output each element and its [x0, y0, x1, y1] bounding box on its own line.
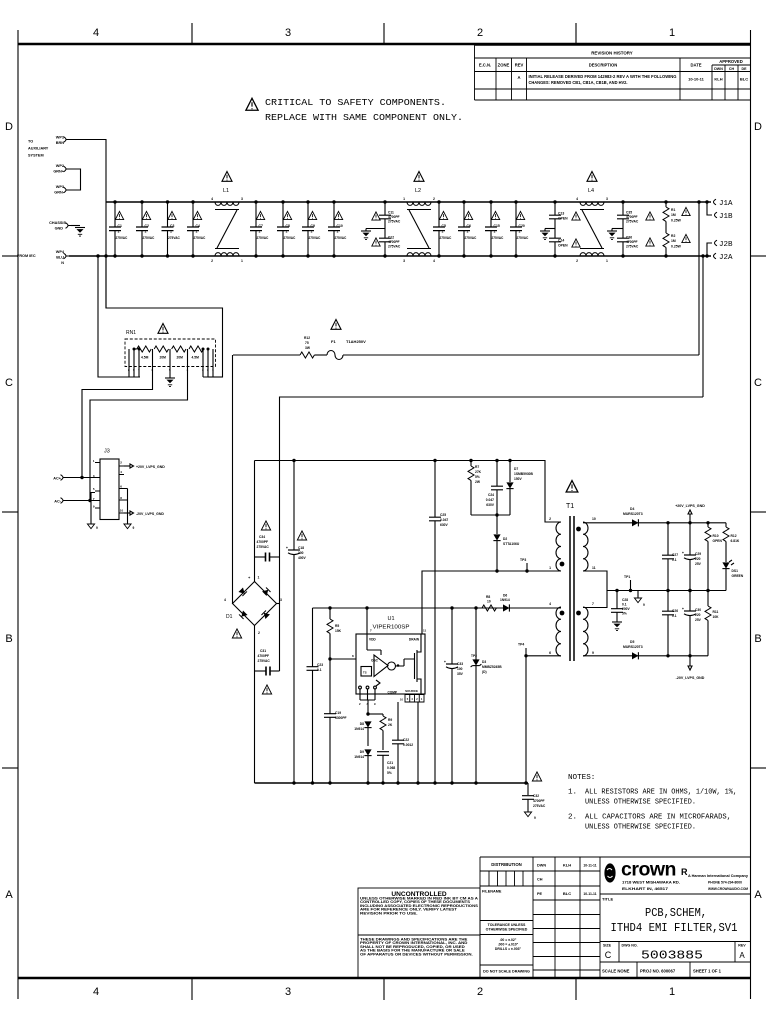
svg-text:2: 2	[258, 631, 260, 635]
svg-text:1: 1	[196, 230, 198, 234]
capacitor C25 0.047 630V	[429, 459, 449, 783]
capacitors C13/C14 with ground	[540, 200, 580, 257]
capacitors C11/C12 with ground	[361, 200, 401, 257]
svg-text:TS: TS	[363, 671, 367, 675]
IC U1 VIPER100SP	[356, 606, 427, 706]
svg-text:CHANGES: REMOVED CB1, CB1A, CB: CHANGES: REMOVED CB1, CB1A, CB1B, AND HV…	[529, 80, 628, 85]
svg-text:C3: C3	[170, 224, 174, 228]
svg-text:275VAC: 275VAC	[492, 236, 505, 240]
svg-text:1: 1	[145, 230, 147, 234]
svg-text:NOTES:: NOTES:	[568, 774, 595, 782]
svg-text:D6: D6	[503, 594, 507, 598]
svg-text:R10: R10	[713, 534, 719, 538]
svg-text:9: 9	[592, 651, 594, 655]
svg-text:4700PF: 4700PF	[388, 240, 400, 244]
svg-text:11: 11	[423, 629, 427, 633]
svg-text:C22: C22	[403, 738, 409, 742]
svg-text:100: 100	[457, 667, 463, 671]
svg-text:4700PF: 4700PF	[626, 240, 638, 244]
capacitor C1 275VAC	[109, 200, 129, 257]
wire WP1 to top bus and down to RN1	[69, 140, 106, 309]
svg-text:4700PF: 4700PF	[626, 215, 638, 219]
svg-text:TP4: TP4	[518, 643, 524, 647]
svg-text:MURS120T3: MURS120T3	[623, 645, 643, 649]
svg-text:220: 220	[695, 613, 701, 617]
svg-text:C9: C9	[311, 224, 315, 228]
svg-text:400V: 400V	[298, 556, 307, 560]
svg-text:275VAC: 275VAC	[388, 220, 401, 224]
capacitor C26 0.1	[662, 591, 679, 658]
net -20V_LVPS_GND	[676, 656, 705, 680]
svg-text:2: 2	[549, 517, 551, 521]
svg-text:3: 3	[285, 27, 291, 39]
svg-text:AUXILIARY: AUXILIARY	[28, 147, 49, 151]
svg-text:C19: C19	[335, 711, 341, 715]
capacitor C33 100 35V	[444, 606, 464, 783]
svg-text:275VAC: 275VAC	[168, 236, 181, 240]
svg-text:1: 1	[311, 230, 313, 234]
capacitor C7 275VAC	[250, 200, 270, 257]
capacitor C19 3300PF	[324, 657, 347, 783]
svg-text:SIZE: SIZE	[603, 944, 612, 948]
svg-text:INITIAL RELEASE DERIVED FROM 1: INITIAL RELEASE DERIVED FROM 142983-2 RE…	[529, 74, 677, 79]
svg-text:1: 1	[403, 197, 405, 201]
resistor R12 75 3W	[233, 336, 314, 358]
svg-text:2K: 2K	[388, 723, 393, 727]
svg-text:C12: C12	[388, 236, 394, 240]
svg-text:25V: 25V	[695, 618, 702, 622]
svg-text:1: 1	[494, 230, 496, 234]
svg-text:4: 4	[224, 598, 226, 602]
connector J3	[93, 449, 128, 520]
svg-text:SCALE NONE: SCALE NONE	[602, 969, 630, 974]
capacitor C31 4700PF 275VAC	[255, 649, 280, 694]
wire bottom bus (neutral)	[69, 255, 711, 257]
svg-text:1: 1	[258, 576, 260, 580]
resistor R9 2K	[366, 712, 393, 750]
svg-text:T1AH250V: T1AH250V	[346, 339, 366, 344]
svg-text:1718 WEST MISHAWAKA RD.: 1718 WEST MISHAWAKA RD.	[622, 881, 680, 885]
wire primary ground rail	[255, 782, 529, 784]
svg-text:DWN: DWN	[714, 67, 723, 71]
capacitor C8 275VAC	[277, 200, 297, 257]
svg-text:STTA106U: STTA106U	[503, 542, 520, 546]
wire fuse line down to bridge AC1	[232, 355, 234, 604]
svg-text:R12: R12	[731, 534, 737, 538]
svg-text:C5: C5	[442, 224, 446, 228]
resistor R11 10K	[705, 591, 719, 656]
capacitor C4 275VAC	[187, 200, 207, 257]
capacitor C28 0.1 200V 5%	[611, 589, 631, 631]
wire aux VDD rail	[313, 607, 562, 609]
terminal WP2 GRN+	[53, 164, 69, 174]
svg-text:TP1: TP1	[624, 575, 630, 579]
svg-text:D8: D8	[360, 722, 364, 726]
svg-text:275VAC: 275VAC	[194, 236, 207, 240]
svg-text:275VAC: 275VAC	[258, 659, 271, 663]
svg-text:B: B	[754, 633, 761, 645]
svg-text:R: R	[681, 867, 688, 877]
transformer T1	[549, 481, 596, 661]
svg-text:DATE: DATE	[690, 63, 701, 68]
terminal WP3 GRN-	[54, 185, 69, 195]
svg-text:1N914: 1N914	[500, 598, 510, 602]
svg-text:9: 9	[534, 816, 536, 820]
svg-text:COMP: COMP	[387, 691, 397, 695]
svg-text:+: +	[682, 607, 684, 611]
wire RN1 pin4 to AC-	[90, 367, 188, 501]
wire drain rail to T1 pin 1	[422, 571, 561, 634]
svg-text:275VAC: 275VAC	[335, 236, 348, 240]
svg-text:C33: C33	[457, 662, 463, 666]
svg-text:R2: R2	[671, 234, 675, 238]
svg-text:crown: crown	[621, 859, 676, 881]
svg-text:C10: C10	[337, 224, 343, 228]
diode D7 clamp	[506, 459, 533, 515]
svg-text:D5: D5	[630, 640, 634, 644]
capacitor C30 220 25V	[682, 589, 702, 658]
svg-text:UNLESS OTHERWISE SPECIFIED.: UNLESS OTHERWISE SPECIFIED.	[585, 824, 696, 832]
capacitor C32 4700PF 275VAC	[522, 772, 546, 820]
svg-text:10-11-11: 10-11-11	[583, 864, 596, 868]
svg-text:75: 75	[305, 341, 309, 345]
svg-text:C32: C32	[533, 794, 539, 798]
wire T1 pin 6 to ground rail / TP4	[526, 656, 561, 783]
svg-text:B: B	[5, 633, 12, 645]
capacitor C15 275VAC	[485, 200, 505, 257]
svg-text:REV: REV	[738, 944, 746, 948]
svg-text:D7: D7	[514, 467, 518, 471]
resistor R12b 6.81K	[723, 523, 740, 562]
svg-text:D: D	[754, 121, 762, 133]
svg-text:35V: 35V	[457, 672, 464, 676]
svg-text:OTHERWISE SPECIFIED: OTHERWISE SPECIFIED	[486, 928, 528, 932]
svg-text:DRILLS = ±.003": DRILLS = ±.003"	[495, 947, 522, 951]
svg-text:20M: 20M	[160, 356, 167, 360]
wire bridge DC- down	[254, 626, 256, 784]
svg-text:RN1: RN1	[126, 330, 136, 336]
svg-text:1M: 1M	[671, 213, 676, 217]
test point TP1	[624, 575, 632, 592]
svg-text:D1: D1	[226, 614, 233, 620]
svg-text:PROJ NO. 600067: PROJ NO. 600067	[640, 969, 676, 974]
svg-text:APPROVED: APPROVED	[719, 59, 743, 64]
svg-text:C2: C2	[145, 224, 149, 228]
svg-text:R7: R7	[475, 465, 479, 469]
svg-text:GREEN: GREEN	[732, 574, 744, 578]
svg-text:9: 9	[133, 526, 135, 530]
svg-text:C15: C15	[494, 224, 500, 228]
svg-text:0.068: 0.068	[387, 766, 395, 770]
svg-text:R8: R8	[486, 595, 490, 599]
svg-text:PCB,SCHEM,: PCB,SCHEM,	[645, 907, 707, 920]
svg-text:10: 10	[592, 517, 596, 521]
svg-text:U1: U1	[387, 616, 394, 622]
svg-text:4700PF: 4700PF	[258, 654, 270, 658]
svg-text:R12: R12	[304, 336, 310, 340]
svg-text:0.1: 0.1	[317, 668, 322, 672]
wire +20V rail	[583, 522, 726, 524]
svg-text:TOLERANCE UNLESS: TOLERANCE UNLESS	[488, 923, 526, 927]
svg-text:1SMB5930B: 1SMB5930B	[514, 472, 533, 476]
svg-text:KLH: KLH	[714, 77, 722, 82]
svg-text:275VAC: 275VAC	[465, 236, 478, 240]
svg-text:C34: C34	[259, 535, 265, 539]
svg-text:10K: 10K	[713, 615, 720, 619]
svg-text:D3: D3	[482, 660, 486, 664]
svg-text:7: 7	[592, 602, 594, 606]
svg-text:PE: PE	[537, 892, 543, 896]
svg-text:4700PF: 4700PF	[388, 215, 400, 219]
svg-text:REVISION HISTORY: REVISION HISTORY	[591, 51, 633, 56]
svg-text:SOURCE: SOURCE	[405, 689, 418, 693]
svg-text:25V: 25V	[695, 562, 702, 566]
svg-text:DWN: DWN	[537, 864, 546, 868]
svg-text:C21: C21	[387, 761, 393, 765]
svg-text:TO: TO	[28, 140, 33, 144]
svg-text:10: 10	[120, 509, 124, 513]
svg-text:C: C	[605, 950, 612, 960]
svg-text:UNLESS OTHERWISE SPECIFIED.: UNLESS OTHERWISE SPECIFIED.	[585, 799, 696, 807]
svg-text:WP2: WP2	[56, 164, 64, 168]
svg-text:DWG NO.: DWG NO.	[622, 944, 638, 948]
svg-text:BRN: BRN	[56, 141, 64, 145]
svg-text:10: 10	[487, 600, 491, 604]
terminal CHASSIS GND	[49, 221, 85, 236]
svg-text:2: 2	[477, 986, 483, 998]
resistor R7 27K	[468, 459, 482, 515]
svg-text:BLC: BLC	[740, 77, 748, 82]
diode D8 1N914	[354, 721, 371, 746]
wire top bus drop to fuse line	[698, 202, 700, 355]
svg-text:WP3: WP3	[56, 185, 64, 189]
svg-text:1: 1	[669, 27, 675, 39]
svg-text:MURS120T3: MURS120T3	[623, 512, 643, 516]
svg-text:REPLACE WITH SAME COMPONENT ON: REPLACE WITH SAME COMPONENT ONLY.	[265, 112, 463, 123]
svg-text:4: 4	[549, 602, 551, 606]
svg-text:SYSTEM: SYSTEM	[28, 154, 44, 158]
svg-text:C13: C13	[558, 212, 564, 216]
svg-text:MMBZ5245B: MMBZ5245B	[482, 665, 502, 669]
svg-text:3300PF: 3300PF	[335, 716, 347, 720]
wire DC+ rail down through C34 to bridge	[254, 461, 256, 582]
svg-text:1: 1	[286, 230, 288, 234]
svg-text:C11: C11	[388, 211, 394, 215]
svg-text:-20V_LVPS_GND: -20V_LVPS_GND	[136, 512, 164, 516]
svg-text:OF APPARATUS OR DEVICES WITHOU: OF APPARATUS OR DEVICES WITHOUT PERMISSI…	[360, 952, 473, 956]
svg-text:5%: 5%	[622, 612, 627, 616]
title block	[358, 857, 751, 978]
terminal WP4 BLU N	[56, 250, 69, 265]
svg-text:BLC: BLC	[563, 891, 571, 896]
svg-text:GRN-: GRN-	[54, 191, 64, 195]
terminal AC-	[54, 498, 100, 504]
wire U1 source to ground rail	[417, 702, 419, 783]
svg-text:D9: D9	[360, 750, 364, 754]
svg-text:275VAC: 275VAC	[626, 220, 639, 224]
svg-text:J3: J3	[104, 449, 110, 455]
svg-text:3: 3	[285, 986, 291, 998]
capacitor C21 0.068 5%	[377, 752, 396, 783]
svg-text:WP1: WP1	[56, 136, 64, 140]
notes	[568, 774, 737, 832]
svg-text:R5: R5	[335, 624, 339, 628]
svg-text:GRN+: GRN+	[53, 170, 64, 174]
svg-text:275VAC: 275VAC	[517, 236, 530, 240]
test point TP3	[520, 558, 529, 573]
svg-text:1M: 1M	[671, 239, 676, 243]
connector J2B	[705, 240, 733, 258]
svg-text:C4: C4	[196, 224, 200, 228]
capacitor C10 275VAC	[328, 200, 348, 257]
svg-text:OPEN: OPEN	[558, 217, 568, 221]
svg-text:1: 1	[549, 566, 551, 570]
svg-text:L1: L1	[223, 188, 229, 194]
svg-text:J1A: J1A	[719, 200, 733, 208]
svg-text:15K: 15K	[335, 629, 342, 633]
svg-text:3: 3	[606, 197, 608, 201]
inductor L4 common-mode choke	[576, 171, 608, 263]
svg-text:630V: 630V	[486, 503, 495, 507]
inductor L1 common-mode choke	[211, 171, 243, 263]
svg-text:275VAC: 275VAC	[533, 804, 546, 808]
svg-text:J2A: J2A	[719, 254, 733, 262]
svg-text:4.5M: 4.5M	[141, 356, 149, 360]
svg-text:J1B: J1B	[719, 213, 733, 221]
svg-text:(D): (D)	[482, 670, 487, 674]
svg-text:A Harman International Company: A Harman International Company	[688, 874, 748, 878]
svg-text:C1: C1	[118, 224, 122, 228]
svg-text:0.1: 0.1	[672, 614, 677, 618]
wire neutral tap to RN1 right side	[106, 256, 223, 377]
svg-text:A: A	[739, 951, 745, 960]
fuse F1 T1AH250V	[314, 319, 699, 359]
connector J1B	[705, 200, 733, 221]
resistor R10 OPEN	[705, 521, 722, 592]
svg-text:D2: D2	[503, 537, 507, 541]
wire RN1 pin6 to AC+	[82, 367, 153, 478]
resistor network RN1	[125, 323, 223, 386]
svg-text:200V: 200V	[622, 607, 631, 611]
svg-text:ELKHART IN, 46517: ELKHART IN, 46517	[622, 887, 668, 891]
diode D6 1N914	[500, 594, 510, 612]
svg-text:+: +	[444, 660, 446, 664]
svg-text:100: 100	[298, 551, 304, 555]
svg-text:C29: C29	[695, 552, 701, 556]
svg-text:1: 1	[606, 259, 608, 263]
svg-text:0.047: 0.047	[486, 498, 494, 502]
svg-text:ALL CAPACITORS ARE IN MICROFAR: ALL CAPACITORS ARE IN MICROFARADS,	[585, 814, 731, 822]
resistor R2 1M 0.25W	[663, 233, 690, 258]
svg-text:+20V_LVPS_GND: +20V_LVPS_GND	[675, 504, 705, 508]
svg-text:275VAC: 275VAC	[257, 545, 270, 549]
svg-text:1N914: 1N914	[354, 727, 364, 731]
svg-text:4: 4	[93, 27, 99, 39]
resistor R5 15K	[327, 606, 342, 659]
wire bottom bus drop to AC2 line	[702, 256, 704, 397]
svg-text:T1: T1	[566, 503, 574, 510]
svg-text:+: +	[682, 551, 684, 555]
capacitor C2 275VAC	[136, 200, 156, 257]
svg-text:TP3: TP3	[520, 558, 526, 562]
svg-text:4.5M: 4.5M	[192, 356, 200, 360]
capacitors C35/C36 with ground	[607, 200, 654, 257]
svg-text:D4: D4	[630, 507, 634, 511]
svg-text:1: 1	[241, 259, 243, 263]
svg-text:D: D	[5, 121, 13, 133]
svg-text:REVISION PRIOR TO USE.: REVISION PRIOR TO USE.	[360, 911, 418, 915]
svg-text:DISTRIBUTION: DISTRIBUTION	[491, 862, 522, 867]
net +20V_LVPS_GND	[675, 504, 705, 523]
svg-text:10-10-11: 10-10-11	[688, 77, 705, 82]
svg-text:C23: C23	[317, 663, 323, 667]
capacitor C18 100 400V bulk	[286, 459, 307, 783]
svg-text:DESCRIPTION: DESCRIPTION	[589, 63, 618, 68]
wire neutral tap to RN1 left side	[98, 256, 140, 377]
svg-text:VIPER100SP: VIPER100SP	[373, 625, 411, 631]
svg-text:CHASSIS: CHASSIS	[49, 221, 66, 225]
wire DC+ rail	[255, 461, 562, 523]
svg-text:1: 1	[170, 230, 172, 234]
diode D4 MURS120T3	[623, 507, 643, 526]
ground at J3 pin5	[87, 493, 98, 531]
svg-text:0.1: 0.1	[672, 558, 677, 562]
svg-text:L4: L4	[588, 188, 594, 194]
capacitor C20 275VAC	[510, 200, 530, 257]
svg-text:CRITICAL TO SAFETY COMPONENTS.: CRITICAL TO SAFETY COMPONENTS.	[265, 97, 446, 108]
crown logo	[600, 893, 751, 895]
ground at J3 pins6/8	[124, 489, 135, 531]
diode D5 MURS120T3	[623, 640, 643, 659]
svg-text:4: 4	[433, 259, 435, 263]
svg-text:R11: R11	[713, 610, 719, 614]
svg-text:+: +	[286, 546, 288, 550]
svg-text:9: 9	[643, 603, 645, 607]
svg-text:CH: CH	[729, 67, 735, 71]
wire top bus (line)	[106, 201, 711, 203]
svg-text:1: 1	[118, 230, 120, 234]
svg-text:0.25W: 0.25W	[671, 219, 682, 223]
capacitor C27 0.1	[662, 521, 679, 592]
wire -20V rail	[583, 655, 708, 657]
svg-text:C18: C18	[298, 546, 304, 550]
wire secondary pin7 to center	[583, 591, 607, 608]
svg-text:4700PF: 4700PF	[533, 799, 545, 803]
capacitor C3 275VAC	[161, 200, 181, 257]
svg-text:6.81K: 6.81K	[731, 539, 740, 543]
capacitor C24 0.047 630V	[486, 459, 504, 515]
svg-text:A: A	[517, 75, 520, 80]
svg-text:4700PF: 4700PF	[257, 540, 269, 544]
svg-text:2: 2	[576, 259, 578, 263]
svg-text:VDD: VDD	[369, 638, 376, 642]
svg-text:1N914: 1N914	[354, 755, 364, 759]
capacitor C23 0.1	[306, 608, 323, 783]
svg-text:275VAC: 275VAC	[284, 236, 297, 240]
svg-text:275VAC: 275VAC	[257, 236, 270, 240]
inductor L2 common-mode choke	[403, 171, 435, 263]
svg-text:KLH: KLH	[563, 863, 571, 868]
svg-text:20M: 20M	[177, 356, 184, 360]
ground at RN1 pin 5	[169, 367, 171, 379]
svg-text:C: C	[5, 377, 13, 389]
svg-text:630V: 630V	[440, 523, 449, 527]
capacitor C22 0.0012	[392, 702, 414, 783]
svg-text:ALL RESISTORS ARE IN OHMS, 1/1: ALL RESISTORS ARE IN OHMS, 1/10W, 1%,	[585, 789, 737, 797]
node: TO AUXILIARY SYSTEM labels	[17, 140, 49, 259]
svg-text:275VAC: 275VAC	[116, 236, 129, 240]
connector J1A	[714, 199, 734, 208]
